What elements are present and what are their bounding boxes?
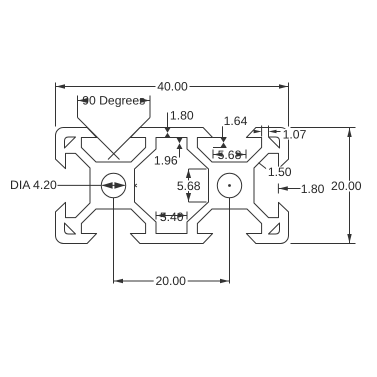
svg-text:20.00: 20.00 bbox=[331, 179, 362, 193]
svg-text:1.80: 1.80 bbox=[301, 182, 325, 196]
svg-text:1.96: 1.96 bbox=[154, 153, 178, 167]
svg-text:1.80: 1.80 bbox=[170, 109, 194, 123]
svg-text:90 Degrees: 90 Degrees bbox=[82, 93, 145, 107]
svg-text:40.00: 40.00 bbox=[157, 79, 188, 93]
svg-text:5.40: 5.40 bbox=[160, 210, 184, 224]
svg-text:1.50: 1.50 bbox=[268, 165, 292, 179]
svg-text:1.07: 1.07 bbox=[283, 127, 307, 141]
svg-text:5.68: 5.68 bbox=[177, 179, 201, 193]
svg-text:20.00: 20.00 bbox=[155, 274, 186, 288]
svg-text:1.64: 1.64 bbox=[224, 114, 248, 128]
svg-text:DIA 4.20: DIA 4.20 bbox=[10, 178, 57, 192]
